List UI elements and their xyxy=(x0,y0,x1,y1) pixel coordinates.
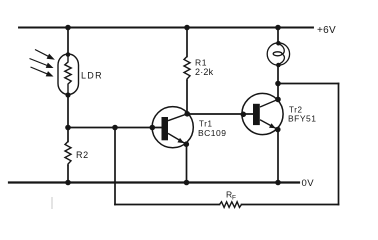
wire right side vertical of feedback loop xyxy=(338,84,340,205)
wire Tr1 emitter to 0V xyxy=(186,144,188,182)
wire Tr1 base from node A xyxy=(68,127,162,129)
node top rail / lamp xyxy=(275,25,281,31)
resistor RF zigzag xyxy=(220,202,242,208)
svg-text:2·2k: 2·2k xyxy=(195,67,214,77)
wire R2 bottom lead xyxy=(67,166,69,183)
node top rail / LDR xyxy=(65,25,71,31)
light arrow 2 xyxy=(30,59,53,68)
LDR internal resistor zigzag xyxy=(65,55,71,94)
light arrow 1 xyxy=(35,50,53,59)
node base entry Tr1 xyxy=(150,125,156,131)
node lamp top terminal xyxy=(276,41,281,46)
node top rail / R1 xyxy=(184,25,190,31)
wire RF bottom left segment xyxy=(115,204,220,206)
wire LDR branch top xyxy=(67,28,69,55)
LDR envelope xyxy=(58,54,79,95)
wire R2 top lead xyxy=(67,128,69,142)
wire R1 top lead xyxy=(186,28,188,57)
svg-text:R2: R2 xyxy=(76,150,89,160)
svg-text:0V: 0V xyxy=(302,178,315,189)
node LDR bottom terminal xyxy=(65,92,70,97)
node A base junction xyxy=(65,125,71,131)
resistor R1 2.2k zigzag xyxy=(184,57,190,81)
svg-text:BFY51: BFY51 xyxy=(288,114,317,124)
wire LDR bottom to base node xyxy=(67,95,69,128)
wire 0V bottom rail xyxy=(9,181,299,183)
node Tr2 emitter xyxy=(275,127,281,133)
node lamp bottom terminal xyxy=(276,63,281,68)
wire feedback branch down from node A xyxy=(114,128,116,205)
node base entry Tr2 xyxy=(241,112,247,118)
wire R1 bottom lead to Tr1 collector node xyxy=(186,81,188,114)
node Tr1 collector xyxy=(184,111,190,117)
svg-text:+6V: +6V xyxy=(317,25,336,36)
svg-text:R1: R1 xyxy=(195,58,207,68)
light arrow 3 xyxy=(31,67,53,76)
resistor R2 zigzag xyxy=(65,142,71,166)
node 0V / Tr2 emitter xyxy=(275,180,281,186)
node 0V / R2 xyxy=(65,180,71,186)
wire Tr2 emitter to 0V xyxy=(277,129,279,183)
wire RF bottom right segment xyxy=(242,204,339,206)
node Tr1 emitter xyxy=(184,141,190,147)
node feedback branch on base wire xyxy=(112,125,118,131)
wire lamp node to right side xyxy=(278,83,339,85)
transistor Tr1 BC109 xyxy=(152,107,193,148)
node Tr2 collector xyxy=(275,97,281,103)
node LDR top terminal xyxy=(66,52,71,57)
svg-text:F: F xyxy=(232,195,236,202)
wire +6V top rail xyxy=(19,27,313,29)
transistor Tr2 BFY51 xyxy=(242,93,283,134)
wire lamp branch from top rail xyxy=(277,28,279,44)
node lamp-collector junction xyxy=(275,81,281,87)
svg-text:LDR: LDR xyxy=(81,71,103,81)
scan artifact tick xyxy=(51,197,53,209)
svg-text:BC109: BC109 xyxy=(198,128,227,138)
wire lamp bottom to junction xyxy=(277,65,279,84)
wire junction to Tr2 collector xyxy=(277,84,279,100)
node 0V / Tr1 emitter xyxy=(184,180,190,186)
lamp L1 xyxy=(267,43,289,65)
wire Tr1 collector node to Tr2 base xyxy=(187,113,253,115)
